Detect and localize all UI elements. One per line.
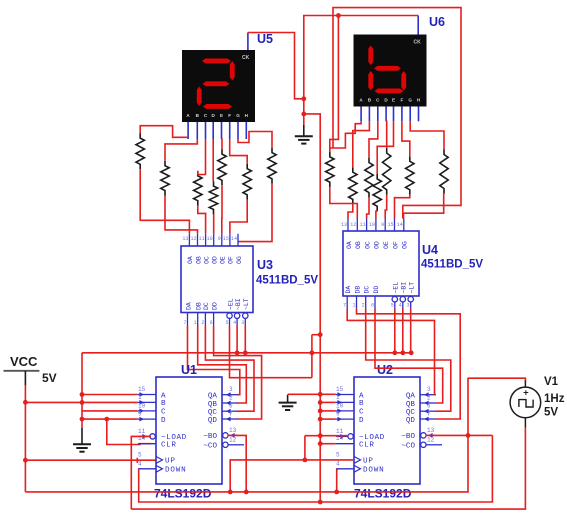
resistor R3 bbox=[194, 171, 202, 206]
svg-text:10: 10 bbox=[369, 222, 375, 228]
svg-text:7: 7 bbox=[427, 411, 431, 418]
wire bottom bus to V1 minus bbox=[131, 428, 525, 510]
wire R8 to U4.OB bbox=[330, 187, 358, 218]
svg-text:A: A bbox=[161, 392, 166, 400]
resistor R4 bbox=[209, 181, 217, 214]
label U6 bbox=[429, 15, 445, 29]
wire U3.~EL to bus bbox=[230, 326, 312, 378]
svg-text:13: 13 bbox=[341, 222, 347, 228]
svg-text:OG: OG bbox=[402, 241, 409, 249]
junction dot bbox=[318, 417, 323, 422]
wire to U2.~LOAD bbox=[305, 435, 347, 437]
svg-text:15: 15 bbox=[223, 236, 229, 242]
svg-text:9: 9 bbox=[336, 411, 340, 418]
junction dot bbox=[301, 112, 306, 117]
resistor R6 bbox=[243, 164, 251, 200]
svg-text:2: 2 bbox=[427, 395, 431, 402]
junction dot bbox=[104, 417, 109, 422]
svg-text:QB: QB bbox=[406, 401, 416, 409]
wire stub at U1.UP bbox=[136, 458, 138, 463]
wire U1.~BO drop bbox=[228, 435, 247, 492]
wire U3.~LT to bus bbox=[244, 326, 246, 353]
svg-text:A: A bbox=[359, 392, 364, 400]
svg-text:2: 2 bbox=[201, 320, 204, 326]
svg-text:OB: OB bbox=[195, 256, 202, 264]
svg-text:7: 7 bbox=[343, 303, 346, 309]
junction dot bbox=[301, 96, 306, 101]
svg-text:F: F bbox=[228, 113, 231, 118]
resistor R10 bbox=[365, 158, 373, 198]
4511 decoder U3 bbox=[181, 234, 253, 326]
label U4 value 4511BD_5V bbox=[421, 259, 483, 271]
svg-text:~BO: ~BO bbox=[203, 433, 217, 441]
label U2 value 74LS192D bbox=[354, 487, 412, 501]
svg-text:CLR: CLR bbox=[359, 442, 374, 450]
svg-text:OB: OB bbox=[355, 241, 362, 249]
svg-text:~EL: ~EL bbox=[393, 282, 400, 294]
wire U5.D to R4 bbox=[212, 139, 214, 181]
wire to U2.A from ground bbox=[288, 393, 336, 395]
wire U4.DC to U2.QC bbox=[366, 309, 451, 412]
svg-text:~EL: ~EL bbox=[227, 298, 234, 310]
svg-text:1: 1 bbox=[352, 303, 355, 309]
svg-text:D: D bbox=[161, 417, 166, 425]
svg-text:74LS192D: 74LS192D bbox=[154, 487, 212, 501]
wire U5.G to R7 bbox=[238, 132, 272, 148]
wire R6 to U3.OF bbox=[230, 200, 247, 234]
4511 decoder U4 bbox=[343, 219, 419, 309]
label U4 bbox=[422, 243, 438, 257]
svg-text:U5: U5 bbox=[257, 32, 273, 46]
wire U4.~EL to bus bbox=[394, 309, 396, 353]
wire link column bbox=[304, 436, 306, 460]
label V1 1Hz bbox=[544, 393, 565, 405]
svg-text:E: E bbox=[220, 113, 223, 118]
junction dot bbox=[80, 400, 85, 405]
wire U3.~BI to bus bbox=[236, 326, 238, 353]
wire U6.C to R10 bbox=[369, 121, 378, 157]
svg-text:4: 4 bbox=[399, 303, 402, 309]
svg-text:12: 12 bbox=[190, 236, 196, 242]
svg-text:11: 11 bbox=[336, 428, 344, 435]
junction dot bbox=[80, 417, 85, 422]
wire VCC bottom rail bbox=[25, 378, 468, 492]
label V1 5V bbox=[544, 407, 558, 419]
svg-text:7: 7 bbox=[229, 411, 233, 418]
svg-text:5V: 5V bbox=[544, 407, 558, 419]
wire to U1.CLR bbox=[107, 419, 151, 444]
svg-text:9: 9 bbox=[138, 411, 142, 418]
svg-text:DOWN: DOWN bbox=[363, 467, 384, 475]
svg-text:3: 3 bbox=[427, 386, 431, 393]
svg-text:5V: 5V bbox=[42, 371, 57, 385]
junction dot bbox=[310, 350, 315, 355]
counter U1 74LS192D bbox=[138, 377, 244, 484]
wire R9 to U4.OA bbox=[348, 204, 353, 218]
wire U6 CK to ground node bbox=[304, 16, 418, 126]
svg-text:1: 1 bbox=[336, 394, 340, 401]
svg-text:OA: OA bbox=[346, 241, 353, 249]
svg-text:~BI: ~BI bbox=[235, 298, 242, 310]
wire bus jog at center column bbox=[312, 334, 320, 336]
U3 top pin numbers bbox=[182, 236, 237, 242]
svg-text:1: 1 bbox=[138, 394, 142, 401]
svg-text:U3: U3 bbox=[257, 258, 273, 272]
wire R3 to U3.OC bbox=[198, 206, 206, 234]
svg-text:C: C bbox=[161, 409, 166, 417]
svg-text:9: 9 bbox=[381, 222, 384, 228]
wire inner frame left of U6 bbox=[330, 16, 339, 152]
wire R1 to U3.OA bbox=[140, 169, 189, 234]
resistor R8 bbox=[326, 152, 334, 187]
svg-text:OD: OD bbox=[374, 241, 381, 249]
junction dot bbox=[334, 490, 339, 495]
label U3 bbox=[257, 258, 273, 272]
wire U1.~LOAD to bottom bus bbox=[131, 436, 151, 509]
svg-text:5: 5 bbox=[391, 303, 394, 309]
svg-text:QC: QC bbox=[406, 409, 416, 417]
svg-text:CLR: CLR bbox=[161, 442, 176, 450]
svg-text:QB: QB bbox=[208, 401, 218, 409]
U2 pin numbers bbox=[336, 386, 435, 467]
ground G3 bbox=[279, 395, 297, 410]
U1 pin numbers bbox=[138, 386, 237, 467]
junction dot bbox=[243, 350, 248, 355]
junction dot bbox=[318, 392, 323, 397]
svg-text:6: 6 bbox=[371, 303, 374, 309]
svg-text:DB: DB bbox=[196, 302, 203, 310]
svg-text:13: 13 bbox=[427, 427, 435, 434]
svg-text:C: C bbox=[359, 409, 364, 417]
junction dot bbox=[244, 490, 249, 495]
svg-text:3: 3 bbox=[407, 303, 410, 309]
svg-text:G: G bbox=[408, 98, 412, 103]
svg-text:1Hz: 1Hz bbox=[544, 393, 565, 405]
wire U6.E to R11 bbox=[377, 121, 393, 174]
wire U6.A to R8 staircase bbox=[330, 121, 361, 152]
junction dot bbox=[235, 350, 240, 355]
svg-text:~BO: ~BO bbox=[401, 433, 415, 441]
label U5 bbox=[257, 32, 273, 46]
label U1 bbox=[181, 363, 197, 377]
wire U2 UP feed bbox=[230, 460, 354, 492]
svg-text:7: 7 bbox=[183, 320, 186, 326]
resistor R9 bbox=[349, 167, 357, 204]
svg-text:DOWN: DOWN bbox=[165, 467, 186, 475]
junction dot bbox=[318, 433, 323, 438]
svg-text:15: 15 bbox=[336, 386, 344, 393]
svg-text:~CO: ~CO bbox=[401, 443, 415, 451]
wire U1.DOWN drop bbox=[139, 469, 321, 502]
wire U3.DD to U1.QD bbox=[214, 326, 262, 419]
junction dot bbox=[318, 400, 323, 405]
wire R5 to U3.OE bbox=[221, 185, 223, 234]
resistor R11 bbox=[373, 174, 381, 211]
wire U4.DD to U2.QB bbox=[375, 309, 443, 404]
svg-text:2: 2 bbox=[362, 303, 365, 309]
svg-text:15: 15 bbox=[138, 386, 146, 393]
wire U2.DOWN feed bbox=[337, 469, 338, 492]
resistor R1 bbox=[136, 133, 144, 169]
svg-text:DC: DC bbox=[364, 286, 371, 294]
wire U6.B to R9 bbox=[353, 121, 370, 167]
svg-text:OE: OE bbox=[220, 256, 227, 264]
wire R13 to U4.OF bbox=[395, 195, 410, 219]
resistor R12 bbox=[383, 148, 391, 195]
wire V1 plus to net bbox=[468, 378, 525, 381]
svg-text:DC: DC bbox=[203, 302, 210, 310]
wire VCC rail down bbox=[24, 385, 26, 492]
wire to U1.C bbox=[82, 410, 138, 412]
wire U5.F to R6 bbox=[230, 139, 248, 164]
wire U3.DC to U1.QC bbox=[205, 326, 254, 411]
junction dot bbox=[392, 350, 397, 355]
svg-text:4511BD_5V: 4511BD_5V bbox=[421, 259, 483, 271]
svg-text:U4: U4 bbox=[422, 243, 438, 257]
wire R12 to U4.OE bbox=[385, 195, 387, 219]
junction dot bbox=[23, 458, 28, 463]
svg-text:10: 10 bbox=[207, 236, 213, 242]
7-segment display U6 (digit b) bbox=[354, 35, 427, 107]
wire U6.F to R13 bbox=[402, 121, 410, 156]
svg-text:15: 15 bbox=[387, 222, 393, 228]
svg-text:14: 14 bbox=[397, 222, 403, 228]
svg-text:~BI: ~BI bbox=[401, 282, 408, 294]
junction dot bbox=[228, 490, 233, 495]
junction dot bbox=[23, 400, 28, 405]
svg-text:OD: OD bbox=[212, 256, 219, 264]
svg-text:U1: U1 bbox=[181, 363, 197, 377]
resistor R5 bbox=[218, 149, 226, 185]
junction dot bbox=[303, 458, 308, 463]
7-segment display U5 (digit 2) bbox=[182, 50, 255, 122]
power VCC symbol bbox=[4, 354, 40, 385]
svg-text:DB: DB bbox=[354, 286, 361, 294]
resistor R13 bbox=[406, 156, 414, 195]
svg-text:4: 4 bbox=[138, 460, 142, 467]
svg-text:10: 10 bbox=[336, 402, 344, 409]
svg-text:12: 12 bbox=[350, 222, 356, 228]
svg-text:~LT: ~LT bbox=[243, 298, 250, 310]
wire U6 CK pin bbox=[417, 16, 419, 35]
svg-text:11: 11 bbox=[199, 236, 205, 242]
junction dot bbox=[318, 409, 323, 414]
svg-text:5: 5 bbox=[225, 320, 228, 326]
junction dot bbox=[318, 500, 323, 505]
wire lower bus bbox=[320, 435, 492, 502]
svg-text:10: 10 bbox=[138, 402, 146, 409]
svg-text:QA: QA bbox=[208, 393, 218, 401]
wire R2 to U3.OB bbox=[165, 196, 198, 234]
svg-text:OA: OA bbox=[187, 256, 194, 264]
wire U5 CK to ground node bbox=[248, 33, 304, 99]
resistor R2 bbox=[161, 161, 169, 196]
wire to U1.D bbox=[82, 418, 138, 420]
wire R11 to U4.OD bbox=[376, 211, 377, 218]
wire U6.D to R12 bbox=[385, 121, 388, 148]
U4 bottom pin numbers bbox=[343, 303, 410, 309]
svg-text:14: 14 bbox=[231, 236, 237, 242]
U4 top pin numbers bbox=[341, 222, 403, 228]
wire U5 CK pin bbox=[247, 33, 249, 51]
wire U3.DB to U1.QB bbox=[198, 326, 247, 403]
junction dot bbox=[466, 433, 471, 438]
wire horizontal bus net bbox=[82, 352, 411, 354]
wire U4.DB to U2.QD bbox=[357, 309, 461, 420]
wire R7 to U3.OG bbox=[238, 184, 272, 242]
svg-text:13: 13 bbox=[229, 427, 237, 434]
wire U5.E to R5 bbox=[221, 139, 224, 149]
svg-text:E: E bbox=[392, 98, 395, 103]
svg-text:+: + bbox=[523, 387, 529, 398]
junction dot bbox=[318, 332, 323, 337]
svg-text:1: 1 bbox=[194, 320, 197, 326]
wire U3.DA to U1.QA bbox=[188, 326, 240, 395]
svg-text:4: 4 bbox=[233, 320, 236, 326]
svg-text:3: 3 bbox=[229, 386, 233, 393]
svg-text:11: 11 bbox=[138, 428, 146, 435]
junction dot bbox=[336, 13, 341, 18]
wire U4.DA to U2.QA bbox=[347, 309, 436, 395]
wire VCC to U1.UP bbox=[25, 459, 157, 461]
svg-text:OF: OF bbox=[392, 241, 399, 249]
resistor R7 bbox=[268, 148, 276, 184]
wire ground column bbox=[81, 353, 83, 428]
wire to U2.D bbox=[320, 418, 336, 420]
svg-text:QD: QD bbox=[406, 417, 416, 425]
svg-text:~CO: ~CO bbox=[203, 443, 217, 451]
svg-text:UP: UP bbox=[165, 458, 176, 466]
wire U4.~BI to bus bbox=[402, 309, 404, 353]
ground G2 bbox=[73, 428, 91, 452]
svg-text:13: 13 bbox=[182, 236, 188, 242]
svg-text:5: 5 bbox=[336, 451, 340, 458]
label V1 bbox=[544, 376, 559, 388]
wire to U1.A bbox=[82, 394, 138, 396]
svg-text:9: 9 bbox=[218, 236, 221, 242]
ground G1 bbox=[295, 125, 313, 144]
wire R14 to U4.OG bbox=[404, 194, 444, 219]
wire U4.~LT to bus bbox=[410, 309, 412, 353]
svg-text:CK: CK bbox=[414, 40, 422, 46]
svg-text:12: 12 bbox=[427, 436, 435, 443]
svg-text:12: 12 bbox=[229, 436, 237, 443]
svg-text:4511BD_5V: 4511BD_5V bbox=[256, 275, 318, 287]
svg-text:DA: DA bbox=[185, 302, 192, 310]
svg-text:V1: V1 bbox=[544, 376, 559, 388]
wire R4 to U3.OD bbox=[213, 214, 215, 233]
label U3 value 4511BD_5V bbox=[256, 275, 318, 287]
wire U5.A to R1 bbox=[140, 126, 188, 138]
U6 display pins A-H bbox=[361, 107, 418, 122]
counter U2 74LS192D bbox=[336, 377, 442, 484]
svg-text:4: 4 bbox=[336, 460, 340, 467]
junction dot bbox=[409, 350, 414, 355]
svg-text:DD: DD bbox=[211, 302, 218, 310]
junction dot bbox=[400, 350, 405, 355]
svg-text:OF: OF bbox=[228, 256, 235, 264]
svg-text:~LT: ~LT bbox=[409, 282, 416, 294]
svg-text:OG: OG bbox=[236, 256, 243, 264]
wire U5.C to R3 bbox=[198, 139, 206, 175]
clock source V1 bbox=[510, 387, 541, 418]
svg-text:11: 11 bbox=[360, 222, 366, 228]
svg-text:QA: QA bbox=[406, 393, 416, 401]
svg-text:D: D bbox=[359, 417, 364, 425]
svg-text:6: 6 bbox=[427, 403, 431, 410]
svg-text:B: B bbox=[359, 400, 364, 408]
svg-text:B: B bbox=[161, 400, 166, 408]
svg-text:U2: U2 bbox=[377, 363, 393, 377]
wire bus jog vertical bbox=[311, 335, 313, 378]
svg-text:QC: QC bbox=[208, 409, 218, 417]
wire ground node to center column bbox=[304, 114, 320, 502]
label U2 bbox=[377, 363, 393, 377]
svg-text:U6: U6 bbox=[429, 15, 445, 29]
svg-text:6: 6 bbox=[229, 403, 233, 410]
svg-text:OC: OC bbox=[203, 256, 210, 264]
wire U6.G to R14 bbox=[410, 121, 444, 149]
wire to U2.C bbox=[320, 410, 336, 412]
wire U5.B to R2 bbox=[165, 139, 197, 161]
wire U2.~BO to V1 net bbox=[426, 434, 493, 436]
svg-text:QD: QD bbox=[208, 417, 218, 425]
wire R10 to U4.OC bbox=[367, 198, 369, 219]
label VCC 5V bbox=[42, 371, 57, 385]
wire frame top right of U6 bbox=[333, 8, 461, 219]
svg-text:G: G bbox=[236, 113, 240, 118]
svg-text:2: 2 bbox=[229, 395, 233, 402]
svg-text:CK: CK bbox=[242, 55, 250, 61]
U3 bottom pin numbers bbox=[183, 320, 244, 326]
svg-text:74LS192D: 74LS192D bbox=[354, 487, 412, 501]
svg-text:DA: DA bbox=[345, 286, 352, 294]
wire to U2.B bbox=[320, 401, 336, 403]
V1 lead stubs bbox=[524, 381, 526, 428]
wire to U2.CLR bbox=[320, 443, 336, 445]
svg-text:VCC: VCC bbox=[10, 354, 38, 369]
svg-text:UP: UP bbox=[363, 458, 374, 466]
svg-text:OC: OC bbox=[364, 241, 371, 249]
U5 display pins A-H bbox=[188, 122, 246, 139]
svg-text:DD: DD bbox=[373, 286, 380, 294]
svg-text:F: F bbox=[400, 98, 403, 103]
resistor R14 bbox=[440, 150, 448, 194]
label U1 value 74LS192D bbox=[154, 487, 212, 501]
wire VCC to U1.B bbox=[25, 401, 137, 403]
svg-text:6: 6 bbox=[210, 320, 213, 326]
junction dot bbox=[318, 441, 323, 446]
svg-text:3: 3 bbox=[241, 320, 244, 326]
svg-text:OE: OE bbox=[383, 241, 390, 249]
junction dot bbox=[80, 392, 85, 397]
svg-text:5: 5 bbox=[138, 451, 142, 458]
